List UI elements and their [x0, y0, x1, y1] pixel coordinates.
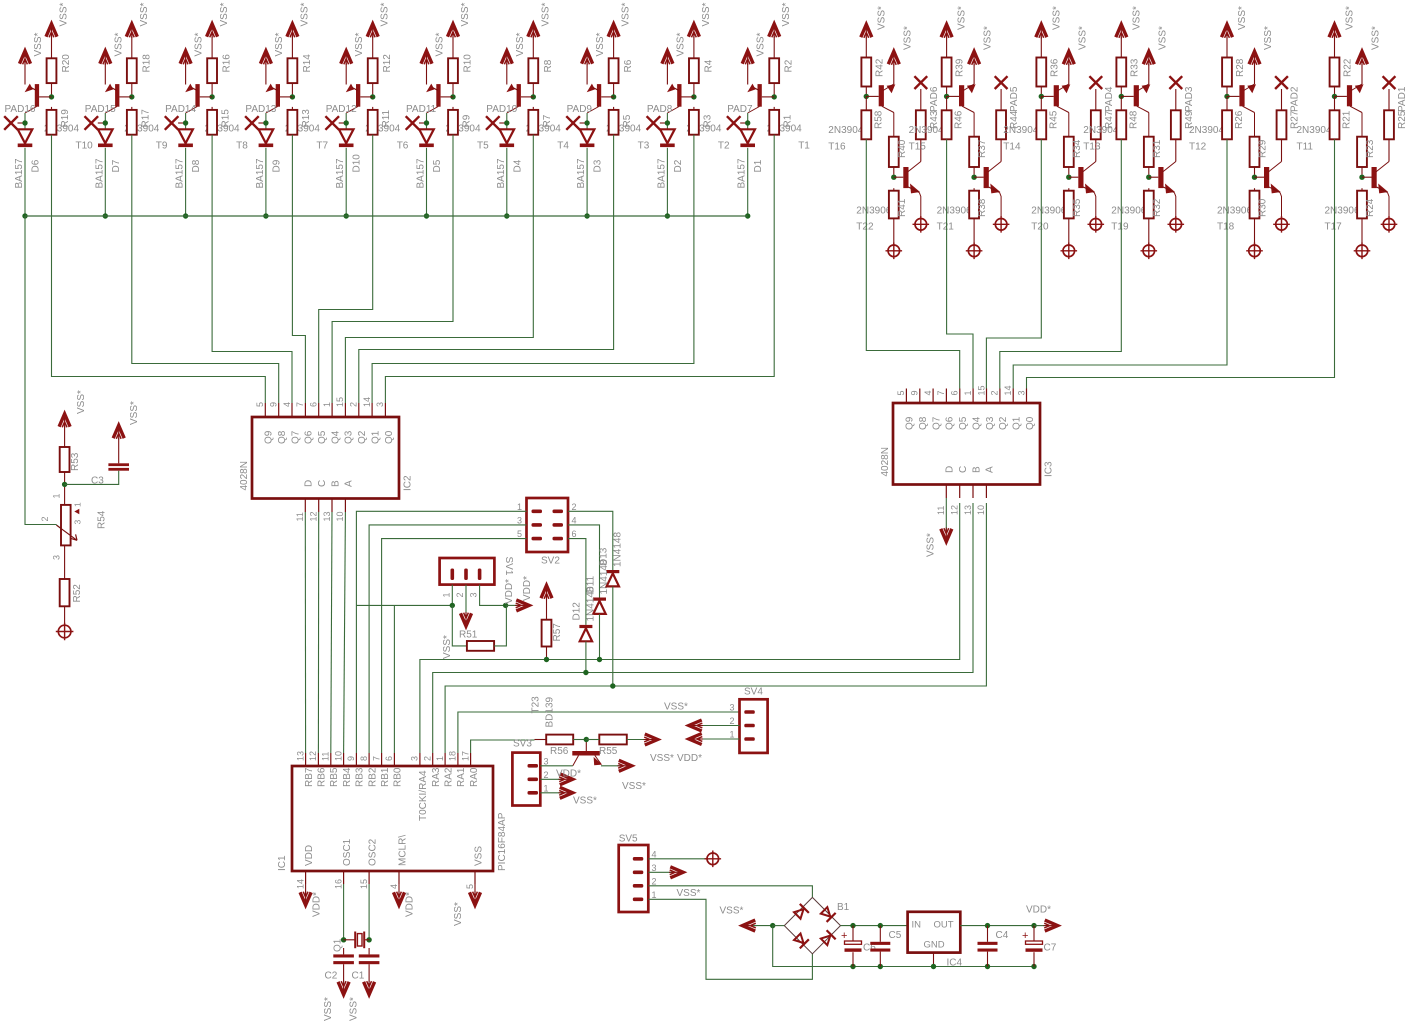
svg-text:BA157: BA157 [255, 158, 266, 188]
label VDD* 1 [504, 579, 515, 604]
junction D12 on RA3 line [583, 670, 588, 675]
power symbol VSS* (collector) cell L8 [608, 2, 632, 58]
svg-text:R21: R21 [1342, 110, 1353, 129]
svg-text:D10: D10 [352, 154, 363, 173]
svg-text:PIC16F84AP: PIC16F84AP [497, 812, 508, 871]
label VDD* near SV4 [677, 753, 702, 764]
svg-text:T7: T7 [316, 141, 328, 152]
resistor R58 [861, 96, 884, 139]
diode D7 BA157 [94, 129, 122, 188]
svg-text:2N3906: 2N3906 [937, 206, 972, 217]
svg-text:BA157: BA157 [416, 158, 427, 188]
resistor R55 [586, 735, 648, 757]
transistor T14 2N3904 [1003, 84, 1070, 153]
power symbol VSS* emitter cell R6 [1357, 26, 1382, 84]
svg-text:R46: R46 [954, 110, 965, 129]
svg-text:R30: R30 [1258, 198, 1269, 217]
svg-text:SV3: SV3 [513, 739, 532, 750]
svg-text:RB0: RB0 [393, 767, 404, 787]
svg-text:VDD*: VDD* [1026, 905, 1051, 916]
pin target cell R4 a [1141, 243, 1158, 260]
svg-text:VSS*: VSS* [926, 533, 937, 557]
crystal Q1 [333, 932, 370, 953]
svg-text:RA3: RA3 [431, 767, 442, 787]
svg-text:VSS*: VSS* [323, 997, 334, 1021]
resistor R19 [47, 107, 71, 135]
svg-text:VSS*: VSS* [59, 2, 70, 26]
svg-text:PAD4: PAD4 [1104, 86, 1115, 112]
svg-text:2: 2 [455, 592, 465, 597]
resistor R22 [1330, 58, 1354, 95]
pin number 7 IC1 [371, 756, 381, 761]
svg-text:D8: D8 [191, 159, 202, 172]
pad PAD14 [165, 104, 197, 130]
svg-text:R42: R42 [874, 58, 885, 77]
capacitor C2 [325, 948, 354, 982]
wire IC1 RA0 to R56 [471, 740, 535, 753]
svg-text:T20: T20 [1031, 222, 1049, 233]
label VSS* on RA1 line [664, 702, 688, 713]
pin target cell R5 a [1246, 243, 1263, 260]
svg-text:PAD12: PAD12 [326, 104, 357, 115]
svg-text:R14: R14 [302, 54, 313, 73]
svg-text:VSS*: VSS* [460, 2, 471, 26]
svg-text:R11: R11 [381, 109, 392, 127]
svg-text:10: 10 [335, 511, 345, 521]
svg-text:2N3906: 2N3906 [1111, 206, 1146, 217]
power symbol VSS* (collector) cell L3 [207, 2, 231, 58]
svg-text:RB2: RB2 [367, 767, 378, 787]
pin number 13 IC1 [295, 751, 305, 761]
junction crystal right [366, 937, 371, 942]
svg-text:VSS*: VSS* [720, 906, 744, 917]
connector SV1 [440, 557, 514, 585]
svg-text:3: 3 [1016, 390, 1026, 395]
pin number 1 IC1 [435, 756, 445, 761]
svg-text:BA157: BA157 [496, 158, 507, 188]
pin number 2 IC3 [990, 390, 1000, 395]
junction bus cell L4 [263, 213, 268, 218]
transistor T2 2N3904 [667, 84, 730, 152]
svg-text:C7: C7 [1044, 943, 1057, 954]
diode D1 BA157 [737, 129, 765, 188]
wire emitter2 to target cell R6 [1388, 193, 1390, 219]
transistor T7 2N3904 [266, 84, 329, 152]
wire R19 to IC2 pin 5 [52, 135, 266, 403]
IC IC1 PIC16F84AP [277, 753, 508, 884]
wire T23 emitter to VSS [601, 765, 622, 767]
transistor T16 2N3904 [828, 84, 895, 153]
svg-text:D5: D5 [432, 159, 443, 172]
svg-text:Q2: Q2 [998, 416, 1009, 430]
svg-text:Q0: Q0 [384, 430, 395, 444]
svg-text:VSS*: VSS* [756, 32, 767, 56]
svg-text:Q1: Q1 [370, 430, 381, 444]
svg-text:T18: T18 [1217, 222, 1235, 233]
pin number 12 IC1 [308, 751, 318, 761]
wire RB0 node [356, 605, 452, 753]
power symbol VSS* emitter cell R5 [1249, 26, 1274, 84]
resistor R20 [47, 54, 72, 95]
resistor R17 [127, 107, 151, 135]
pin number 6 IC3 [950, 390, 960, 395]
resistor R49 [1171, 110, 1195, 161]
wire pad to diode cell L10 [747, 113, 749, 129]
label VSS* emitter cell L9 [675, 32, 686, 56]
wire pad to diode cell L1 [24, 113, 26, 129]
connector SV2 [517, 498, 577, 567]
svg-text:SV1: SV1 [503, 557, 514, 576]
svg-text:15: 15 [359, 879, 369, 889]
svg-text:T22: T22 [856, 222, 874, 233]
pin number 13 IC2 [322, 511, 332, 521]
power symbol VSS* cell R1 [861, 6, 888, 58]
junction pad node cell L8 [584, 120, 589, 125]
power symbol VDD* output [1026, 905, 1058, 932]
pin number 10 IC3 [976, 505, 986, 515]
svg-text:R6: R6 [623, 59, 634, 72]
power symbol VSS* (collector) cell L10 [769, 2, 793, 58]
junction C7 bottom [1031, 964, 1036, 969]
svg-text:Q6: Q6 [304, 430, 315, 444]
junction base node cell R2 [944, 94, 949, 99]
transistor T10 2N3904 [25, 84, 94, 152]
svg-text:RB6: RB6 [317, 767, 328, 787]
resistor R21 [1330, 96, 1353, 139]
transistor T15 2N3904 [909, 84, 976, 153]
resistor R9 [448, 107, 472, 135]
power symbol VSS* cell R6 [1329, 6, 1356, 58]
label VSS* emitter cell L7 [515, 32, 526, 56]
wire collector col cell R3 [1068, 113, 1070, 137]
pad PAD15 [85, 104, 117, 130]
svg-text:MCLR\: MCLR\ [397, 835, 408, 866]
resistor R8 [528, 58, 553, 94]
resistor R10 [448, 54, 473, 95]
junction base node cell L6 [450, 94, 455, 99]
svg-text:7: 7 [936, 390, 946, 395]
junction base2 node cell R6 [1359, 175, 1364, 180]
junction base node cell L10 [772, 94, 777, 99]
power symbol VSS* at IC3 pin11 [926, 498, 952, 557]
junction base node cell L2 [129, 94, 134, 99]
svg-text:R7: R7 [542, 114, 553, 127]
wire diode D3 to bus [586, 148, 588, 216]
svg-text:T5: T5 [477, 141, 489, 152]
transistor T3 2N3904 [587, 84, 650, 152]
power symbol VSS* (collector) cell L5 [367, 2, 391, 58]
svg-text:3: 3 [517, 516, 522, 526]
power symbol VSS* under C1 [349, 981, 375, 1022]
diode D5 BA157 [416, 129, 444, 188]
svg-text:2N3906: 2N3906 [856, 206, 891, 217]
junction bus cell L6 [424, 213, 429, 218]
junction base2 node cell R2 [971, 175, 976, 180]
svg-text:VSS*: VSS* [453, 902, 464, 926]
junction base node cell L5 [370, 94, 375, 99]
wire diode D7 to bus [104, 148, 106, 216]
transistor T20 2N3906 [1031, 162, 1096, 233]
svg-text:2N3904: 2N3904 [1189, 125, 1224, 136]
transistor T1 2N3904 [747, 84, 810, 152]
wire diode D9 to bus [265, 148, 267, 216]
svg-text:1: 1 [52, 493, 62, 498]
power symbol VSS* (collector) cell L2 [126, 2, 150, 58]
resistor R11 [368, 107, 392, 135]
svg-text:15: 15 [335, 397, 345, 407]
bus wire (diode cathodes) [25, 215, 748, 217]
svg-text:BA157: BA157 [335, 158, 346, 188]
svg-text:3: 3 [410, 756, 420, 761]
junction base node cell L8 [611, 94, 616, 99]
svg-text:VDD*: VDD* [405, 892, 416, 917]
svg-text:5: 5 [255, 402, 265, 407]
svg-text:T2: T2 [718, 141, 730, 152]
wire SV2 pin6 to diode D12 [568, 539, 586, 625]
pin number 3 IC3 [1016, 390, 1026, 395]
junction bus cell L2 [103, 213, 108, 218]
wire R15 to IC2 pin 4 [212, 135, 292, 403]
svg-text:OSC2: OSC2 [367, 838, 378, 866]
resistor R44 [996, 110, 1020, 161]
pad PAD16 [4, 104, 36, 130]
svg-text:14: 14 [1003, 385, 1013, 395]
pad PAD3 [1169, 76, 1194, 112]
svg-text:IN: IN [912, 920, 922, 931]
svg-text:R39: R39 [955, 58, 966, 77]
label VDD* 2 [522, 576, 533, 601]
svg-text:12: 12 [308, 751, 318, 761]
resistor R57 [542, 596, 563, 660]
resistor R28 [1222, 58, 1246, 95]
svg-text:PAD10: PAD10 [486, 104, 517, 115]
wire R45 to IC3 pin 15 [986, 139, 1041, 388]
svg-text:11: 11 [295, 512, 305, 521]
svg-text:7: 7 [371, 756, 381, 761]
resistor R42 [861, 58, 885, 95]
junction pad node cell L4 [263, 120, 268, 125]
wire R21 to IC3 pin 3 [1027, 139, 1335, 388]
svg-text:1N4148: 1N4148 [585, 586, 596, 621]
svg-text:RB3: RB3 [355, 767, 366, 787]
junction base node cell R4 [1119, 94, 1124, 99]
svg-text:5: 5 [896, 390, 906, 395]
svg-text:4: 4 [389, 884, 399, 889]
power symbol VSS* (emitter) cell L9 [662, 51, 673, 85]
svg-text:4: 4 [923, 390, 933, 395]
svg-text:R52: R52 [72, 584, 83, 603]
junction C5 top [878, 923, 883, 928]
svg-text:PAD11: PAD11 [406, 104, 437, 115]
wire R7 to IC2 pin 15 [345, 135, 533, 403]
svg-text:R56: R56 [550, 746, 569, 757]
power symbol VDD* at IC1 MCLR pin 4 [394, 884, 416, 917]
power symbol VSS* emitter cell R4 [1143, 26, 1168, 84]
svg-text:T16: T16 [828, 142, 846, 153]
pin number 14 IC1 bottom [295, 879, 305, 889]
trimmer R54 [57, 502, 108, 545]
resistor R47 [1091, 110, 1115, 161]
wire SV2 pin5 to IC1 RB1 [382, 539, 527, 753]
transistor T17 2N3906 [1325, 162, 1390, 233]
pin target SV5 pin4 [705, 851, 722, 868]
junction base node cell L7 [531, 94, 536, 99]
svg-text:D4: D4 [512, 159, 523, 172]
power symbol VSS* cell R2 [941, 6, 968, 58]
wire diode D4 to bus [506, 148, 508, 216]
svg-text:1: 1 [322, 402, 332, 407]
svg-text:4: 4 [282, 402, 292, 407]
resistor R40 [889, 137, 908, 175]
svg-text:VSS*: VSS* [33, 32, 44, 56]
label VSS* near SV1 [442, 635, 453, 659]
svg-text:9: 9 [346, 756, 356, 761]
transistor T8 2N3904 [185, 84, 248, 152]
svg-text:T6: T6 [397, 141, 409, 152]
pin number 2 IC2 [349, 402, 359, 407]
svg-text:T11: T11 [1297, 142, 1314, 153]
diode D4 BA157 [496, 129, 524, 188]
svg-text:2: 2 [40, 516, 50, 521]
svg-text:R35: R35 [1072, 198, 1083, 217]
junction C4 top [985, 923, 990, 928]
svg-text:3: 3 [469, 592, 479, 597]
svg-text:VSS*: VSS* [299, 2, 310, 26]
junction bus cell L8 [584, 213, 589, 218]
resistor R43 [916, 110, 940, 161]
svg-text:Q6: Q6 [945, 416, 956, 430]
svg-text:PAD16: PAD16 [5, 104, 36, 115]
resistor R36 [1036, 58, 1060, 95]
svg-text:PAD7: PAD7 [727, 104, 753, 115]
svg-text:VSS*: VSS* [650, 753, 674, 764]
svg-text:VSS*: VSS* [1263, 26, 1274, 50]
svg-text:PAD9: PAD9 [567, 104, 593, 115]
svg-text:R24: R24 [1365, 198, 1376, 217]
svg-text:2N3904: 2N3904 [828, 125, 863, 136]
svg-text:PAD13: PAD13 [245, 104, 276, 115]
svg-text:B: B [971, 466, 982, 473]
svg-text:IC4: IC4 [947, 958, 963, 969]
transistor T18 2N3906 [1217, 162, 1282, 233]
wire R3 to IC2 pin 14 [372, 135, 694, 403]
svg-text:VSS*: VSS* [1345, 6, 1356, 30]
pin number 1 R54 [52, 493, 62, 498]
svg-text:PAD6: PAD6 [929, 86, 940, 112]
svg-text:VSS*: VSS* [435, 32, 446, 56]
transistor T12 2N3904 [1189, 84, 1256, 153]
wire SV5 pin1 to bridge bottom [648, 899, 812, 979]
svg-text:VSS*: VSS* [113, 32, 124, 56]
svg-text:VSS*: VSS* [983, 26, 994, 50]
power symbol VSS* (emitter) cell L6 [421, 51, 432, 85]
power symbol VSS* cell R3 [1036, 6, 1063, 58]
svg-text:T17: T17 [1325, 222, 1343, 233]
junction base node cell R6 [1332, 94, 1337, 99]
svg-text:R48: R48 [1128, 110, 1139, 129]
svg-text:T10: T10 [76, 141, 94, 152]
svg-text:18: 18 [448, 751, 458, 761]
svg-text:R37: R37 [977, 139, 988, 158]
junction D11 on RA4 line [597, 657, 602, 662]
svg-text:T12: T12 [1189, 142, 1207, 153]
label VSS* near SV4 [650, 753, 674, 764]
svg-text:D: D [304, 480, 315, 487]
svg-text:7: 7 [295, 402, 305, 407]
svg-text:Q5: Q5 [317, 430, 328, 444]
svg-text:Q7: Q7 [931, 416, 942, 430]
diode D13 1N4148 [599, 532, 624, 587]
wire R13 to IC2 pin 7 [292, 135, 305, 403]
svg-text:VSS*: VSS* [274, 32, 285, 56]
svg-text:3: 3 [375, 402, 385, 407]
svg-text:VDD: VDD [304, 845, 315, 866]
svg-text:T9: T9 [156, 141, 168, 152]
transistor T23 BD139 [531, 696, 603, 766]
wire collector col cell R2 [973, 113, 975, 137]
pin number 1 SV1 [441, 592, 451, 597]
label VSS* emitter cell L10 [756, 32, 767, 56]
junction pad node cell L1 [22, 120, 27, 125]
power symbol VSS* (emitter) cell L8 [582, 51, 593, 85]
pin number 5 IC3 [896, 390, 906, 395]
resistor R4 [689, 58, 714, 94]
pin number 4 IC2 [282, 402, 292, 407]
svg-text:PAD1: PAD1 [1397, 86, 1408, 112]
power symbol VDD* right of SV1 [506, 600, 529, 611]
svg-text:2: 2 [423, 756, 433, 761]
svg-text:13: 13 [295, 751, 305, 761]
pin number 4 IC3 [923, 390, 933, 395]
svg-text:13: 13 [322, 511, 332, 521]
svg-text:Q1: Q1 [333, 938, 344, 952]
svg-text:PAD15: PAD15 [85, 104, 116, 115]
svg-text:SV4: SV4 [744, 687, 763, 698]
svg-text:RA1: RA1 [456, 767, 467, 787]
junction R53/C3 node [62, 482, 67, 487]
wire collector col cell R6 [1361, 113, 1363, 137]
svg-text:VSS*: VSS* [876, 6, 887, 30]
wire pad to diode cell L5 [345, 113, 347, 129]
pin number 6 IC1 [384, 756, 394, 761]
pin number 1 IC2 [322, 402, 332, 407]
pin number 4 IC1 bottom [389, 884, 399, 889]
pin target cell R1 a [886, 243, 903, 260]
svg-text:R53: R53 [70, 452, 81, 471]
pin number 3 IC2 [375, 402, 385, 407]
pad PAD10 [486, 104, 518, 130]
power symbol VSS* at SV3 pin1 [540, 787, 597, 806]
svg-text:Q4: Q4 [330, 430, 341, 444]
IC IC3 4028N [880, 389, 1055, 499]
svg-text:VSS*: VSS* [677, 888, 701, 899]
IC IC2 4028N [239, 403, 414, 512]
svg-text:2: 2 [349, 402, 359, 407]
pin number 15 IC1 bottom [359, 879, 369, 889]
junction bus cell L10 [745, 213, 750, 218]
transistor T21 2N3906 [937, 162, 1002, 233]
power symbol VSS* emitter cell R2 [969, 26, 994, 84]
wire bridge right to IC4 IN [841, 925, 908, 927]
power symbol VSS* (emitter) cell L3 [180, 51, 191, 85]
pin target cell R3 b [1088, 216, 1105, 233]
wire SV2 pin3 to IC1 RB2 [369, 525, 526, 753]
capacitor C7 [1022, 926, 1057, 967]
resistor R1 [769, 107, 793, 135]
wire R26 to IC3 pin 14 [1013, 139, 1227, 388]
svg-text:2: 2 [990, 390, 1000, 395]
pin number 15 IC3 [976, 385, 986, 395]
